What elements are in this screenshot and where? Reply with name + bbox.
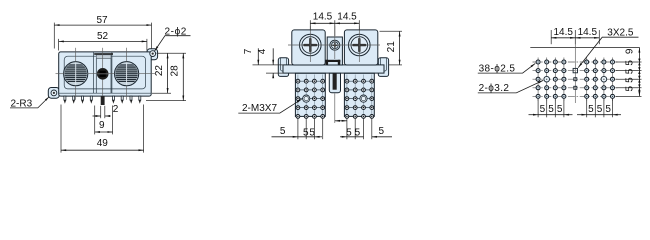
middle tab	[329, 73, 340, 92]
hole grid right group	[585, 60, 615, 98]
2.5 square holes middle column	[573, 68, 577, 89]
svg-text:5: 5	[597, 104, 603, 115]
body block middle	[327, 37, 342, 65]
screw middle	[330, 40, 340, 50]
svg-text:4: 4	[257, 48, 268, 54]
center pin	[101, 96, 105, 105]
top reference line	[530, 46, 639, 48]
dim 49	[61, 105, 144, 153]
svg-text:9: 9	[625, 48, 636, 54]
svg-text:22: 22	[154, 65, 165, 77]
svg-text:57: 57	[96, 15, 108, 26]
dim 22	[152, 53, 186, 93]
pin block left	[295, 73, 325, 116]
svg-text:5: 5	[588, 104, 594, 115]
centerlines columns	[538, 44, 612, 103]
right cheek	[378, 58, 388, 77]
center jack	[97, 68, 109, 80]
inner face rounded rectangle	[64, 56, 145, 89]
svg-text:5: 5	[309, 127, 315, 138]
dim 7	[243, 48, 284, 73]
svg-text:38-ϕ2.5: 38-ϕ2.5	[479, 63, 516, 74]
dims 5 5 right group	[340, 127, 364, 138]
svg-text:28: 28	[170, 65, 181, 77]
dim 21	[380, 31, 403, 65]
dim 5 tail left	[272, 126, 298, 137]
svg-text:5: 5	[557, 104, 563, 115]
svg-text:5: 5	[540, 104, 546, 115]
pin grid right block	[345, 79, 374, 118]
svg-text:3X2.5: 3X2.5	[607, 27, 634, 38]
svg-text:5: 5	[303, 127, 309, 138]
label 2-R3	[10, 97, 49, 110]
pin block right	[344, 73, 374, 116]
dim 28	[146, 53, 186, 100]
dim 57	[54, 15, 151, 49]
svg-text:5: 5	[625, 60, 636, 66]
pin block column lines right	[347, 75, 372, 117]
connector body outline	[59, 52, 152, 96]
top socket slot	[94, 53, 113, 58]
pin center dots left	[297, 81, 323, 118]
svg-text:2-M3X7: 2-M3X7	[242, 103, 277, 114]
svg-text:5: 5	[625, 68, 636, 74]
label 38-phi2.5	[478, 63, 536, 74]
right view bottom dims left group	[529, 99, 573, 117]
svg-text:52: 52	[97, 31, 109, 42]
svg-text:14.5: 14.5	[578, 27, 598, 38]
svg-text:14.5: 14.5	[337, 12, 357, 23]
svg-text:49: 49	[97, 138, 109, 149]
M3 hole right	[360, 95, 367, 102]
svg-text:2: 2	[113, 104, 119, 115]
dim 5 tail right	[372, 126, 392, 137]
label 2-M3X7	[238, 99, 301, 114]
small dim between tab centerline and right block	[335, 120, 347, 122]
pin grid left block	[296, 79, 325, 118]
dark center contact above flange	[326, 60, 341, 65]
right speaker grill	[114, 62, 140, 86]
svg-text:5: 5	[605, 104, 611, 115]
centerlines rows	[533, 62, 618, 96]
middle view bottom dims: ext lines left group	[298, 119, 372, 140]
middle section divider lines	[93, 52, 95, 93]
svg-text:5: 5	[548, 104, 554, 115]
screw left	[300, 34, 322, 56]
hole grid left group	[536, 60, 566, 98]
dim 4	[257, 48, 273, 77]
label 2-phi3.2	[478, 80, 543, 94]
centerlines left view	[56, 48, 156, 100]
centerlines middle view	[288, 26, 380, 123]
svg-text:14.5: 14.5	[553, 27, 573, 38]
svg-text:7: 7	[243, 48, 254, 54]
body block right	[344, 30, 377, 65]
svg-text:5: 5	[379, 126, 385, 137]
left cheek	[278, 58, 288, 77]
flange	[283, 65, 384, 73]
mounting ear top-right	[147, 49, 158, 60]
pin center dots right	[346, 81, 372, 118]
dim 14.5 14.5 right view	[551, 27, 599, 44]
label 2-phi2	[155, 26, 191, 51]
body block left	[292, 30, 325, 65]
bottom pins row	[64, 96, 141, 104]
phi3.2 hole right	[601, 76, 607, 82]
pin block column lines left	[298, 75, 323, 117]
svg-text:5: 5	[280, 126, 286, 137]
right view bottom dims right group	[577, 99, 621, 117]
svg-text:21: 21	[386, 41, 397, 53]
ear hole bottom-left	[51, 90, 57, 96]
dim 9	[95, 106, 113, 135]
left speaker grill	[63, 62, 89, 86]
phi3.2 hole left	[544, 76, 550, 82]
svg-text:5: 5	[346, 127, 352, 138]
ear hole top-right	[150, 51, 156, 57]
dim 2 (center pin width)	[93, 104, 119, 118]
dim 14.5 14.5 middle view	[310, 12, 359, 37]
dims 5 5 left group	[298, 127, 322, 138]
svg-text:5: 5	[625, 85, 636, 91]
M3 hole left	[303, 95, 310, 102]
label 3X2.5	[578, 27, 638, 67]
svg-text:5: 5	[355, 127, 361, 138]
screw right	[349, 34, 371, 56]
dim 52	[59, 31, 147, 50]
hole center dots right view	[538, 61, 614, 97]
body flange seam line	[59, 92, 152, 94]
svg-text:9: 9	[99, 120, 105, 131]
svg-text:14.5: 14.5	[313, 12, 333, 23]
mounting ear bottom-left	[48, 88, 59, 99]
svg-text:5: 5	[625, 77, 636, 83]
right view vertical dim chain 9,5,5,5,5	[616, 47, 642, 96]
